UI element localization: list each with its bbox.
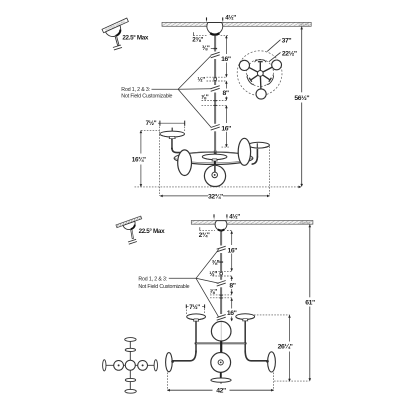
svg-text:Rod 1, 2 & 3:: Rod 1, 2 & 3:: [121, 87, 150, 93]
svg-text:⅜": ⅜": [212, 259, 220, 266]
svg-text:7½": 7½": [189, 303, 200, 311]
svg-text:Rod 1, 2 & 3:: Rod 1, 2 & 3:: [138, 277, 167, 283]
svg-text:CEILING: CEILING: [300, 221, 310, 225]
svg-text:22.5° Max: 22.5° Max: [139, 227, 165, 235]
svg-text:2¾": 2¾": [199, 231, 210, 239]
svg-text:4½": 4½": [225, 14, 236, 22]
svg-text:22½": 22½": [282, 50, 297, 58]
svg-text:16": 16": [221, 56, 231, 63]
svg-text:56½": 56½": [294, 94, 309, 102]
svg-text:26¼": 26¼": [278, 343, 293, 351]
svg-text:⅞": ⅞": [201, 94, 209, 101]
svg-text:22.5° Max: 22.5° Max: [122, 33, 148, 41]
svg-text:⅞": ⅞": [209, 289, 217, 296]
svg-text:CEILING: CEILING: [299, 23, 309, 27]
svg-text:16": 16": [228, 247, 238, 254]
svg-text:Not Field Customizable: Not Field Customizable: [138, 284, 189, 290]
svg-text:4½": 4½": [229, 212, 240, 220]
svg-text:⅜": ⅜": [202, 45, 210, 52]
svg-text:16¾": 16¾": [132, 155, 146, 163]
svg-text:16": 16": [221, 125, 231, 132]
svg-text:16": 16": [227, 310, 237, 317]
svg-text:½": ½": [197, 75, 205, 83]
svg-text:7½": 7½": [146, 119, 157, 127]
svg-text:32¾": 32¾": [208, 192, 223, 200]
svg-text:Not Field Customizable: Not Field Customizable: [121, 93, 172, 99]
svg-text:8": 8": [222, 90, 228, 97]
svg-text:8": 8": [229, 283, 235, 290]
svg-text:42": 42": [216, 388, 226, 395]
svg-text:2⅜": 2⅜": [192, 36, 203, 43]
svg-text:61": 61": [305, 299, 315, 306]
svg-text:37": 37": [282, 38, 292, 45]
